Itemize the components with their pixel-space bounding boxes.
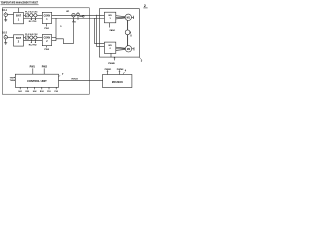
label 2 [144,4,146,8]
wire M1 to terminal [132,16,134,18]
wire PL1 to SL1 [29,14,30,16]
label TH2 [10,80,15,82]
source circle row2 [4,36,7,39]
svg-text:FAN1: FAN1 [110,29,116,32]
fuse PL2 [25,36,28,39]
wire source1 to BAT1 [7,14,13,16]
wire source2 to BAT2 [7,36,13,38]
label 4 with tick [125,70,127,73]
label PWM2 [117,69,124,71]
wire CONV2 top out [52,37,56,39]
dash inside source circle row1 [5,14,7,16]
wire CS2 to CONV2 [37,37,42,39]
source circle row1 [4,13,7,16]
sensor HS1 [72,14,75,17]
wire source1 down [5,16,7,19]
ground row1 [4,19,7,21]
label PW1 under CONV1 [44,28,50,30]
svg-text:PWM0: PWM0 [108,63,115,65]
label SL2 [29,34,34,36]
wire SL1 to CS1 [32,14,35,16]
wire row1 bottom rail to inverter [52,18,105,20]
leader to BAT1 [18,8,20,13]
converter CONV2 [42,35,51,46]
wire M1 to fan [127,20,129,30]
pin SG6 [55,87,57,89]
svg-text:PW1: PW1 [30,65,36,68]
fuse PL1 [25,14,28,17]
battery BAT1 [14,13,24,24]
enclosure box 2 drive unit [99,9,139,57]
svg-text:TEMPERATURE MANAGEMENT TARGET: TEMPERATURE MANAGEMENT TARGET [1,1,39,5]
inverter INV1 [104,12,115,23]
wire CONV1 control stub [46,24,48,27]
svg-text:10-2: 10-2 [2,33,7,35]
relay contact SL2 [30,36,33,39]
three phase lines INV2 to M2 [116,47,126,48]
arrow PWM0 [114,57,116,60]
wire SL2 to CS2 [32,37,35,39]
junction dots [56,15,98,19]
terminal bar M2 [133,47,135,50]
wire HS1 drop arrow [73,17,75,44]
sensor CS1 [34,14,37,17]
converter CONV1 [42,12,51,23]
wire PW1 stub up [32,68,34,74]
svg-text:10-1: 10-1 [2,10,7,12]
title TEMPERATURE MANAGEMENT TARGET [1,1,39,5]
label TS below HS1 [72,21,77,23]
label CS1 [34,12,39,14]
wire INV2 stub down [110,53,112,57]
battery BAT2 [14,35,24,46]
svg-text:SG2: SG2 [33,91,37,93]
svg-text:CONV: CONV [44,15,51,17]
svg-text:2: 2 [144,4,146,8]
pin SG3 [34,87,36,89]
arrow TH1 [13,77,15,79]
label PW2 above control unit [42,65,48,68]
wire row1 top rail to inverter [52,14,105,16]
label PL1 [25,12,30,14]
svg-text:INV: INV [108,45,112,47]
terminal bar M1 [133,16,135,19]
ground row2 [4,42,7,44]
wire BAT1 top out [24,14,26,16]
label PL2 [25,34,30,36]
svg-text:BAT: BAT [16,37,21,40]
label TH1 [10,77,15,79]
fan F1 [125,30,130,35]
wire CS2 drop [34,39,36,43]
label CS2 [34,34,39,36]
wire CS1 to CONV1 [37,14,42,16]
arrow TH2 [13,79,15,81]
motor M1 [125,14,131,20]
label PWM0 [108,63,115,65]
wire staircase bus link [55,19,57,41]
inverter INV2 [104,42,115,53]
control unit [15,74,58,87]
svg-text:PW1: PW1 [44,28,50,30]
svg-text:SG1: SG1 [18,91,22,93]
wire INTLK [59,79,104,81]
leader with circle end [79,15,82,17]
label 3 with tick [141,58,143,62]
svg-text:PW2: PW2 [44,49,50,51]
wire PL2 to SL2 [29,37,30,39]
pin SG4 [41,87,43,89]
label SL1 [29,12,34,14]
svg-text:RG2: RG2 [40,91,44,93]
svg-text:BAT: BAT [16,15,21,18]
relay contact SL1 [30,14,33,17]
svg-text:PWM2: PWM2 [117,69,124,71]
label RL1 below [29,21,34,23]
svg-text:RG1: RG1 [25,91,29,93]
label INTLK [72,78,79,80]
sensor CS2 [34,36,37,39]
wire SL2 drop [30,39,32,43]
wire M2 to terminal [132,48,134,50]
label TS2 below [33,45,38,47]
outer enclosure box 1 [2,8,89,94]
label 7 with tick [62,73,64,76]
arrow PWM1 [107,71,109,75]
three phase lines INV1 to M1 [116,16,125,17]
label TS1 below [33,21,38,23]
bus rail A [95,19,105,44]
MCU ECU box [103,75,132,88]
dash inside source circle row2 [5,36,7,38]
svg-text:CONV: CONV [44,38,51,40]
label PW1 above control unit [30,65,36,68]
svg-text:FS2: FS2 [54,91,57,93]
wire BAT2 bottom rail row2 [24,40,43,42]
node 10-2 label [2,33,7,35]
wire source2 down [5,39,7,43]
wire BAT2 top out [24,37,26,39]
sensor HS2 [77,13,80,16]
title underline [1,4,39,6]
pin SG2 [26,87,28,89]
label PW2 under CONV2 [44,49,50,51]
svg-text:MCU/ECU: MCU/ECU [112,81,123,84]
pin SG5 [48,87,50,89]
pin SG1 [19,87,21,89]
leader 10-1 [5,12,7,13]
svg-text:INTLK: INTLK [72,78,79,80]
wire fan to M2 [127,35,129,46]
leader 10-2 [5,34,7,35]
label RL2 below [29,45,34,47]
wire CONV2 control stub [46,46,48,48]
svg-text:CONTROL UNIT: CONTROL UNIT [27,79,47,83]
wire SL1 drop [30,17,32,20]
label PWM1 [105,69,112,71]
wire INV1 stub down [109,23,111,28]
svg-text:PW2: PW2 [42,65,48,68]
label 5 [60,26,62,28]
wire HS2 drop [77,16,79,20]
svg-text:INV: INV [108,15,112,17]
wire BAT1 bottom rail row1 [24,18,43,20]
label 6 with tick [130,31,132,34]
svg-text:PWM1: PWM1 [105,69,112,71]
label FAN1 [110,29,116,32]
label W1 [66,11,70,13]
tick above HS2 [77,11,79,14]
arrow PWM2 [119,71,121,75]
bus rail B [97,15,105,46]
wire CONV2 bottom out [52,40,56,42]
motor M2 [125,46,131,52]
wire CS1 drop [34,17,36,20]
node 10-1 label [2,10,7,12]
wire PW2 stub up [43,68,45,74]
svg-text:FS1: FS1 [47,91,50,93]
